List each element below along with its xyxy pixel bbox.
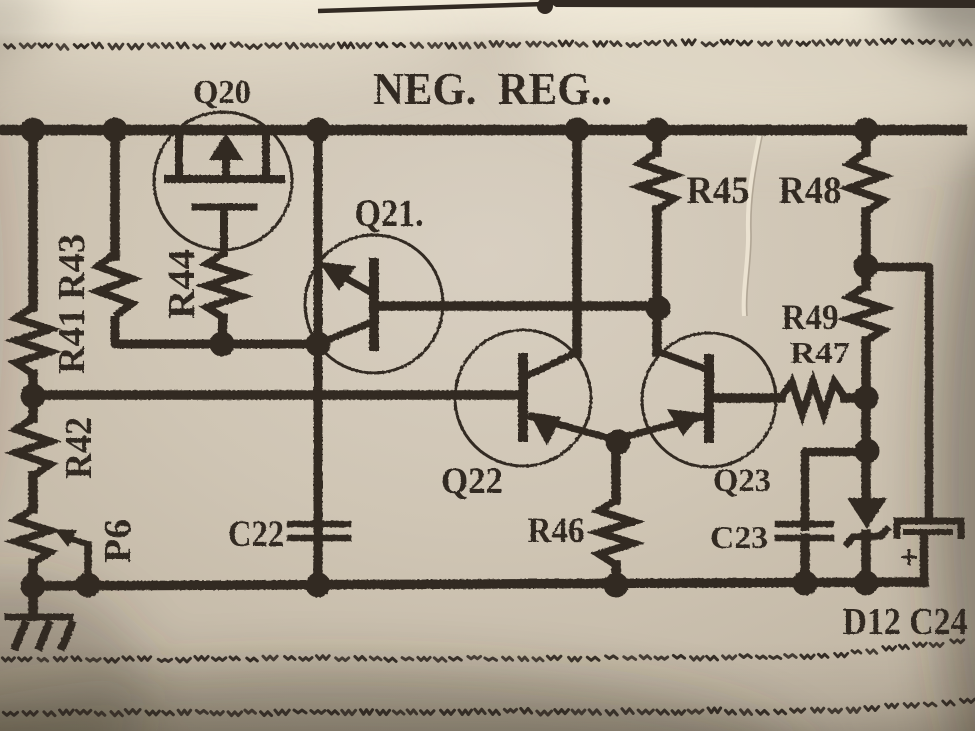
capacitor C22 [290,524,348,538]
potentiometer P6 wiper arrow [54,529,101,598]
wire: lead to R49 [861,266,871,286]
svg-text:R49: R49 [782,297,839,337]
resistor R41 [16,307,50,374]
paper crease / tear line [744,132,763,316]
wire: R49 to R47 node [861,341,871,398]
wire: C23 to bottom rail [800,538,810,584]
svg-text:C22: C22 [228,514,284,555]
edge of preceding schematic row at very top [318,0,975,14]
wire: R48 top lead [861,130,871,152]
wire: R44 to node [222,318,223,344]
wire: jog to right column [866,267,929,518]
junction base bus / R45 column [646,296,671,321]
svg-text:Q20: Q20 [193,74,251,111]
wire: R43 corner to node row [115,316,318,344]
svg-text:R41: R41 [51,308,93,374]
svg-text:R44: R44 [161,249,203,319]
resistor R42 [16,418,50,476]
svg-text:R46: R46 [528,510,585,550]
junction shared emitter node [606,430,631,455]
wire: rail to Q22 collector [572,130,582,353]
junction Q21 collector node [306,332,331,357]
svg-text:NEG. REG..: NEG. REG.. [373,63,612,114]
resistor R45 [640,152,674,210]
wire: node down to D12 node [861,398,871,451]
svg-text:R43: R43 [51,234,93,300]
wire: stub to ground [28,586,38,616]
svg-text:Q23: Q23 [713,463,771,499]
wire: Q21 base bus [378,301,657,311]
diode D12 (zener) [845,451,889,584]
junction node left-mid [21,384,46,409]
transistor Q21 [305,235,443,373]
ground symbol [8,617,73,650]
junction D12 top / C23 branch [855,439,880,464]
wire: R48 to jog node [861,212,871,266]
potentiometer P6 resistive element [16,509,50,563]
svg-text:D12 C24: D12 C24 [843,601,968,643]
wire: left rail top segment [28,130,38,307]
resistor R43 [98,254,132,316]
capacitor C23 [778,524,831,538]
resistor R49 [849,286,883,341]
resistor R48 [849,152,883,212]
svg-text:R42: R42 [58,417,100,479]
svg-text:Q21.: Q21. [355,192,424,235]
transistor Q20 (FET) [154,112,292,253]
wire: mid horizontal bus [33,390,518,400]
dashed tear-off wavy line (top) [5,39,971,49]
svg-text:C23: C23 [710,519,768,555]
svg-text:Q22: Q22 [441,461,503,502]
resistor R44 [207,253,241,318]
wire: Q23 base lead [714,393,781,403]
wire: C23 top branch [805,452,867,531]
junction top rail nodes [21,118,46,143]
wire: R43 top lead [110,130,120,256]
junction R47 right end [854,386,879,411]
wire: R42 to P6 element [28,476,38,509]
wire: R46 to bottom rail [611,565,621,585]
dashed tear-off wavy line (bottom 1) [2,640,963,662]
wire: top supply rail [0,125,962,136]
junction C22 bottom [306,573,331,598]
svg-text:P6: P6 [97,519,139,563]
junction C23 bottom [793,571,818,596]
junction R44 bottom [210,332,235,357]
resistor R47 [781,382,845,414]
capacitor C24 (electrolytic) [897,521,961,583]
wire: emitter node to R46 [611,441,621,500]
wire: node to R42 [28,396,38,418]
wire: vertical bus through Q21/C22 [314,130,323,531]
junction bottom-left [21,574,46,599]
wire: R45 down to Q23 collector [652,210,662,352]
svg-text:R45: R45 [687,169,750,212]
resistor R46 [599,500,633,565]
junction D12 bottom [854,571,879,596]
wire: bottom rail [33,582,924,586]
svg-text:R47: R47 [790,335,850,370]
transistor Q22 [455,330,616,466]
wire: R41 to mid node [28,374,38,396]
junction R46 bottom [604,573,629,598]
junction R48/R49/jog [854,254,879,279]
wire: P6 to bottom rail [28,563,38,584]
svg-text:R48: R48 [779,169,842,212]
wire: R47 to node [845,393,866,403]
transistor Q23 [616,333,776,467]
dashed tear-off wavy line (bottom 2) [3,699,974,716]
wire: R45 top lead [652,130,662,152]
